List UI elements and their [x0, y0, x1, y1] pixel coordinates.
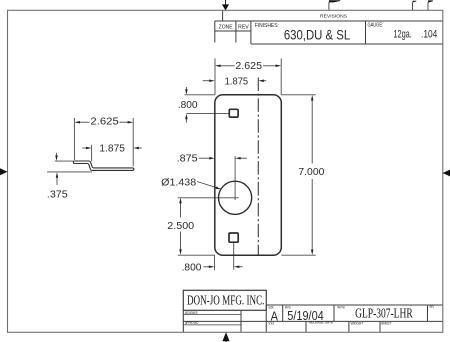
svg-text:SCALE: SCALE [268, 321, 274, 325]
svg-text:REV: REV [238, 25, 249, 31]
svg-text:.800: .800 [182, 263, 202, 274]
svg-text:SHEET: SHEET [381, 321, 392, 325]
svg-text:.375: .375 [47, 190, 68, 201]
svg-text:RELEASE DATE: RELEASE DATE [309, 321, 334, 325]
svg-text:2.625: 2.625 [235, 61, 262, 72]
svg-text:Ø1.438: Ø1.438 [161, 177, 196, 188]
svg-text:1.875: 1.875 [99, 143, 125, 154]
svg-text:DESIGNER: DESIGNER [185, 311, 198, 315]
svg-text:APPROVED: APPROVED [185, 321, 199, 325]
svg-text:630,DU & SL: 630,DU & SL [284, 27, 350, 43]
svg-text:PART NO.: PART NO. [337, 306, 345, 310]
svg-text:.800: .800 [178, 100, 198, 111]
svg-text:WEIGHT: WEIGHT [351, 322, 364, 326]
svg-text:REVISIONS: REVISIONS [320, 14, 347, 20]
svg-text:2.625: 2.625 [90, 117, 119, 128]
svg-text:GLP-307-LHR: GLP-307-LHR [355, 307, 413, 322]
svg-text:1.875: 1.875 [225, 76, 249, 88]
svg-text:DON-JO MFG. INC.: DON-JO MFG. INC. [187, 293, 265, 308]
svg-text:REV: REV [430, 305, 435, 309]
svg-text:ZONE: ZONE [219, 25, 233, 31]
svg-text:B/M NO.: B/M NO. [285, 305, 291, 309]
svg-text:.875: .875 [177, 154, 198, 165]
svg-text:GAUGE:: GAUGE: [367, 22, 383, 28]
svg-text:SIZE: SIZE [268, 305, 273, 309]
svg-text:7.000: 7.000 [298, 166, 324, 178]
svg-text:FINISHES:: FINISHES: [255, 23, 280, 29]
svg-text:.104: .104 [421, 29, 437, 41]
svg-text:12ga.: 12ga. [393, 29, 412, 41]
svg-text:2.500: 2.500 [167, 221, 194, 232]
